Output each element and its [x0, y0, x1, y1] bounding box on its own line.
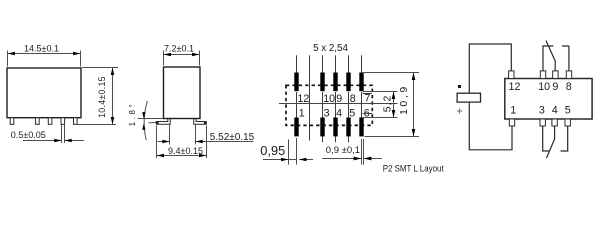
SMT pads top row (pins 12,10,9,8,7) [294, 73, 363, 92]
relay body front view [7, 68, 81, 118]
contact NO pin 8 [562, 46, 569, 71]
contact common pin 4 armature [547, 126, 555, 158]
contact common pin 9 armature [546, 41, 555, 71]
svg-text:4: 4 [552, 105, 558, 117]
svg-text:5: 5 [349, 107, 355, 119]
schematic pin numbers bottom [510, 105, 571, 117]
cell lines around pins 7/6 [363, 94, 373, 114]
centerline [279, 103, 398, 105]
svg-text:1.8°: 1.8° [128, 102, 137, 127]
dimension 10.4±0.15 [77, 68, 118, 125]
dimension 5.52±0.15 [158, 125, 254, 145]
svg-text:9.4±0.15: 9.4±0.15 [168, 146, 203, 156]
pin stubs top [509, 71, 572, 79]
dimension 7.2±0.1 [164, 51, 200, 66]
dimension 10,9 [363, 73, 419, 137]
relay body schematic [505, 79, 592, 120]
svg-text:10: 10 [323, 93, 335, 105]
pad numbers bottom row [299, 107, 370, 119]
svg-text:4: 4 [336, 107, 342, 119]
schematic pin numbers top [509, 81, 572, 93]
coil [457, 93, 480, 102]
svg-text:8: 8 [566, 81, 572, 93]
SMT pads bottom row (pins 1,3,4,5,6) [294, 118, 363, 137]
svg-text:1: 1 [299, 107, 305, 119]
svg-text:0,95: 0,95 [260, 143, 285, 158]
coil wire bottom [469, 102, 512, 150]
relay body side view [164, 67, 201, 119]
svg-text:8: 8 [350, 93, 356, 105]
dimension 5,2 [363, 92, 398, 118]
svg-text:0.5±0.05: 0.5±0.05 [11, 130, 46, 140]
lead angle 1.8 degrees [138, 101, 164, 140]
contact NC pin 10 [543, 46, 554, 71]
svg-text:9: 9 [336, 93, 342, 105]
svg-text:1: 1 [510, 105, 516, 117]
dimension 14.5±0.1 [8, 51, 81, 67]
svg-text:10: 10 [538, 81, 550, 93]
svg-text:9: 9 [552, 81, 558, 93]
svg-text:7.2±0.1: 7.2±0.1 [164, 43, 194, 53]
svg-text:12: 12 [509, 81, 521, 93]
svg-text:5: 5 [565, 105, 571, 117]
pin stubs bottom [509, 119, 570, 126]
svg-text:12: 12 [297, 93, 309, 105]
dimension 9.4±0.15 [157, 126, 207, 159]
coil plus sign [457, 108, 462, 113]
svg-text:10,9: 10,9 [398, 84, 410, 115]
svg-text:14.5±0.1: 14.5±0.1 [24, 43, 59, 53]
svg-text:0,9 ±0,1: 0,9 ±0,1 [326, 145, 360, 156]
svg-text:5.52±0.15: 5.52±0.15 [210, 132, 255, 143]
svg-text:3: 3 [324, 107, 330, 119]
contact NC pin 3 [543, 126, 550, 151]
svg-text:7: 7 [364, 93, 370, 105]
dimension 0.5±0.05 [23, 125, 84, 143]
contact NO pin 5 [561, 126, 568, 151]
coil polarity dot [458, 85, 461, 88]
svg-text:5,2: 5,2 [382, 95, 394, 113]
dimension 0,95 [263, 138, 313, 165]
pad numbers top row [297, 93, 370, 105]
left gull-wing lead [156, 119, 170, 125]
svg-text:5 x 2,54: 5 x 2,54 [313, 43, 348, 54]
svg-text:3: 3 [539, 105, 545, 117]
relay outline dashed [286, 85, 372, 125]
svg-text:10.4±0.15: 10.4±0.15 [97, 76, 107, 118]
pad center lines [297, 55, 362, 142]
right gull-wing lead [194, 119, 207, 125]
front view pins [10, 118, 77, 125]
svg-text:P2 SMT L Layout: P2 SMT L Layout [383, 163, 444, 173]
coil wire top [469, 44, 511, 93]
dimension 0,9 ±0,1 [322, 139, 382, 165]
